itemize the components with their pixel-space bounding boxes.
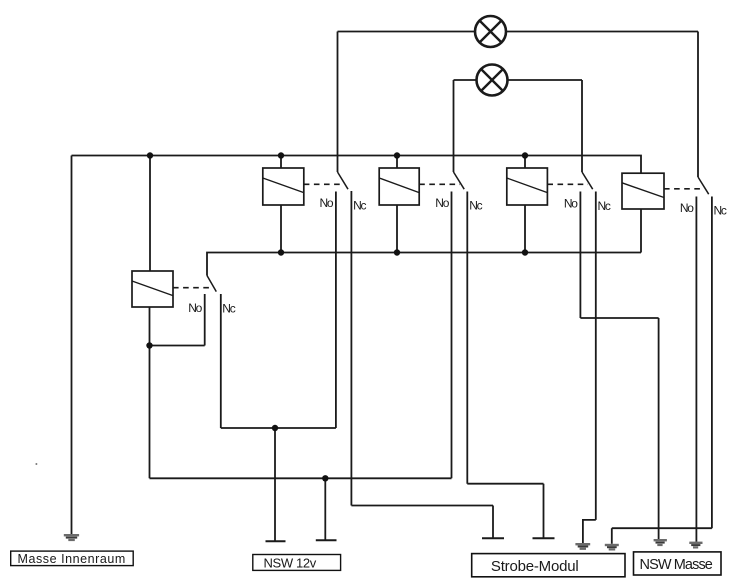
svg-text:Nc: Nc xyxy=(353,199,366,213)
wire K1 Nc run xyxy=(351,505,493,507)
junction node K3 coil top xyxy=(522,152,528,158)
svg-text:No: No xyxy=(435,196,449,210)
terminal Strobe-Modul pin 2 xyxy=(533,537,555,539)
wire left drop to interior ground xyxy=(71,156,73,535)
dashed actuator link K1 xyxy=(304,183,344,185)
terminal NSW 12v pin 2 xyxy=(316,539,337,541)
wire K2 No riser xyxy=(451,192,453,479)
lamp LP2 xyxy=(477,65,508,96)
wire K4 No contact xyxy=(695,197,697,542)
wire K3 No ground drop xyxy=(658,318,660,539)
wire K3 No run xyxy=(580,317,658,319)
svg-text:Masse Innenraum: Masse Innenraum xyxy=(18,552,126,566)
junction node K5 No link xyxy=(146,342,152,348)
wire K5 No contact xyxy=(204,294,206,346)
connector label Strobe-Modul xyxy=(472,554,625,577)
switch arm K4 xyxy=(698,177,709,194)
wire K5 coil bottom to junction xyxy=(149,307,151,478)
wire lamp LP1 left lead xyxy=(338,31,476,33)
wire top supply bus xyxy=(72,156,642,174)
terminal NSW 12v pin 1 xyxy=(266,540,286,542)
wire K2 Nc contact xyxy=(466,192,468,484)
wire lamp LP2 left lead xyxy=(454,79,477,81)
relay coil K3 xyxy=(507,168,548,205)
wire strobe terminal 1 drop xyxy=(492,506,494,539)
junction node NSW branch 1 xyxy=(272,425,278,431)
wire coil return bus xyxy=(207,253,641,276)
relay coil K2 xyxy=(379,168,419,205)
relay coil K1 xyxy=(263,168,304,205)
wire K1 coil top stub xyxy=(280,156,282,169)
relay coil K5 xyxy=(132,271,173,307)
switch arm K1 xyxy=(338,172,349,189)
switch arm K5 xyxy=(207,276,216,292)
svg-text:Nc: Nc xyxy=(469,199,482,213)
svg-text:Nc: Nc xyxy=(598,199,611,213)
wire K1 coil bottom xyxy=(280,205,282,253)
switch arm K3 xyxy=(582,172,593,189)
lamp LP1 xyxy=(475,16,506,47)
svg-text:No: No xyxy=(188,301,202,315)
dashed actuator link K4 xyxy=(664,188,704,190)
junction node K1 coil top xyxy=(278,152,284,158)
wire lamp LP2 right lead xyxy=(508,79,583,81)
wire K4 Nc contact xyxy=(711,197,713,529)
connector label Masse Innenraum xyxy=(11,551,134,566)
wire K5 Nc to K1 No xyxy=(221,427,336,429)
wire LP2 to K2 switch common xyxy=(453,80,455,172)
wire K3 No contact xyxy=(579,192,581,319)
ground at K4 No xyxy=(689,543,702,548)
wire K1 Nc contact xyxy=(350,191,352,506)
wire LP1 to K1 switch common xyxy=(337,32,339,173)
junction node K1 coil bottom xyxy=(278,249,284,255)
svg-text:Nc: Nc xyxy=(714,204,727,218)
switch arm K2 xyxy=(454,172,465,189)
dashed actuator link K3 xyxy=(547,183,588,185)
junction node NSW branch 2 xyxy=(322,475,328,481)
ground at K3 Nc xyxy=(575,544,590,549)
wire K2 coil bottom xyxy=(396,205,398,253)
relay coil K4 xyxy=(622,173,664,209)
stray mark xyxy=(35,463,37,465)
svg-text:Nc: Nc xyxy=(222,302,235,316)
wire K4 coil bottom xyxy=(640,209,642,253)
junction node K2 coil top xyxy=(394,152,400,158)
svg-text:No: No xyxy=(320,196,334,210)
dashed actuator link K5 xyxy=(173,287,212,289)
svg-text:NSW Masse: NSW Masse xyxy=(640,557,713,573)
wire NSW 12v branch 2 xyxy=(324,478,326,540)
junction node K3 coil bottom xyxy=(522,249,528,255)
wire K2 coil top stub xyxy=(396,156,398,169)
wire NSW 12v branch 1 xyxy=(274,428,276,541)
junction node top bus / K5 feed xyxy=(147,152,153,158)
svg-text:Strobe-Modul: Strobe-Modul xyxy=(491,558,579,575)
wire K3 coil top stub xyxy=(524,156,526,169)
connector label NSW Masse xyxy=(634,552,722,575)
wire lamp LP1 right lead xyxy=(506,31,698,33)
wire bottom feed rail xyxy=(150,477,452,479)
wire K3 Nc jog xyxy=(583,520,596,543)
wire strobe terminal 2 drop xyxy=(543,484,545,538)
ground at K4 Nc xyxy=(605,545,619,549)
ground at K3 No xyxy=(654,540,667,545)
wire LP2 to K3 switch common xyxy=(581,80,583,172)
wire K3 coil bottom xyxy=(524,205,526,253)
wire K5 coil top feed xyxy=(149,156,151,272)
ground Masse Innenraum xyxy=(64,535,79,540)
wire K5 No link xyxy=(150,345,205,347)
svg-text:NSW 12v: NSW 12v xyxy=(264,555,317,570)
wire K2 Nc run xyxy=(467,483,543,485)
wire K4 Nc run xyxy=(612,527,712,529)
svg-text:No: No xyxy=(680,201,694,215)
svg-text:No: No xyxy=(564,197,578,211)
dashed actuator link K2 xyxy=(419,183,460,185)
connector label NSW 12v xyxy=(253,555,341,571)
wire K4 Nc ground drop xyxy=(611,528,613,544)
wire K5 Nc contact xyxy=(220,294,222,428)
wire K1 No contact xyxy=(335,192,337,429)
terminal Strobe-Modul pin 1 xyxy=(482,537,504,539)
wire LP1 to K4 switch common xyxy=(697,32,699,178)
junction node K2 coil bottom xyxy=(394,249,400,255)
wire K3 Nc contact xyxy=(595,192,597,520)
